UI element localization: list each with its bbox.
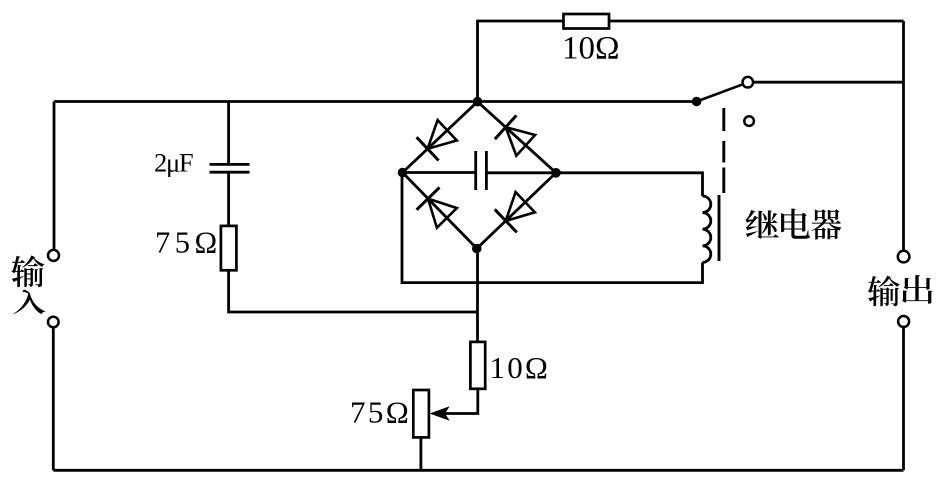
wire: main horizontal bus (top left rail)	[54, 100, 697, 103]
output terminal upper circle	[898, 251, 910, 263]
diode D4 (bridge bottom-right, cathode toward bottom node)	[506, 192, 535, 221]
potentiometer 75Ω body	[413, 390, 429, 437]
diode D3 (bridge bottom-left, cathode toward left node)	[428, 199, 457, 228]
diode D1 (bridge top-left, cathode toward left node)	[428, 120, 457, 149]
node: bridge right junction	[551, 168, 561, 178]
wire: potentiometer bottom lead	[419, 437, 422, 470]
resistor 10Ω (top, horizontal)	[564, 14, 610, 29]
wire: bridge edge top-left	[403, 102, 478, 173]
input terminal upper circle	[48, 250, 59, 261]
wire: left vertical from bus to input terminal	[53, 102, 56, 251]
wire: right vertical from upper output terminal to top loop	[902, 21, 905, 251]
wire: left vertical from lower input terminal to bottom rail	[52, 327, 55, 470]
wire: left branch down and right to centre column	[229, 270, 478, 312]
char 继	[745, 210, 778, 239]
wire: bridge bottom node to 10Ω resistor	[476, 249, 479, 342]
svg-text:75Ω: 75Ω	[155, 226, 222, 260]
wire: capacitor to resistor lead	[227, 172, 230, 226]
char 输 (output)	[868, 276, 900, 307]
char 电	[781, 209, 810, 239]
char 入 (input)	[13, 289, 45, 314]
switch pivot junction dot	[692, 97, 702, 107]
wire: bridge edge top-right	[478, 102, 557, 173]
node: bridge top junction	[473, 97, 483, 107]
svg-text:10Ω: 10Ω	[562, 31, 620, 67]
node: bridge bottom junction	[472, 244, 482, 254]
relay armature dashed link	[722, 108, 725, 193]
wire: relay coil bottom back to bridge left node	[402, 173, 703, 283]
input terminal lower circle	[48, 317, 59, 328]
wire: bridge edge bottom-left	[403, 173, 477, 249]
wire: bridge edge bottom-right	[477, 173, 556, 249]
svg-text:2μF: 2μF	[154, 148, 193, 178]
switch NO contact circle	[743, 77, 754, 88]
wire: 10Ω resistor to wiper arrow	[444, 389, 478, 414]
switch arm	[697, 84, 744, 101]
resistor 75Ω (left, vertical)	[221, 226, 237, 270]
capacitor 2μF plates	[210, 163, 250, 166]
wire: right vertical from bottom rail to lower output terminal	[902, 327, 905, 470]
wire: switch NO contact to right rail	[753, 81, 903, 84]
char 器	[811, 209, 841, 239]
relay coil (4 half-turns)	[703, 196, 711, 262]
wire: bridge right node to relay coil top	[556, 173, 703, 196]
wire: capacitor branch upper lead	[227, 102, 230, 165]
resistor 10Ω (bottom, vertical)	[470, 342, 485, 389]
diode D2 (bridge top-right, cathode toward top node)	[506, 127, 535, 156]
char 出 (output)	[902, 275, 933, 304]
node: bridge left junction	[398, 168, 408, 178]
capacitor (bridge filter, vertical plates)	[474, 151, 477, 190]
switch NC contact circle	[744, 116, 754, 126]
wire: bridge mid-left to filter capacitor	[403, 171, 476, 174]
wire: top loop right segment	[609, 20, 904, 23]
wire: filter capacitor to bridge mid-right	[486, 171, 556, 174]
output terminal lower circle	[898, 316, 909, 327]
wire: top loop left segment	[478, 21, 564, 102]
potentiometer wiper arrow	[431, 407, 449, 420]
relay core bar	[718, 195, 721, 261]
svg-text:10Ω: 10Ω	[490, 350, 551, 385]
svg-text:75Ω: 75Ω	[350, 395, 411, 430]
wire: bottom rail	[53, 469, 903, 472]
char 输 (input)	[11, 255, 44, 287]
